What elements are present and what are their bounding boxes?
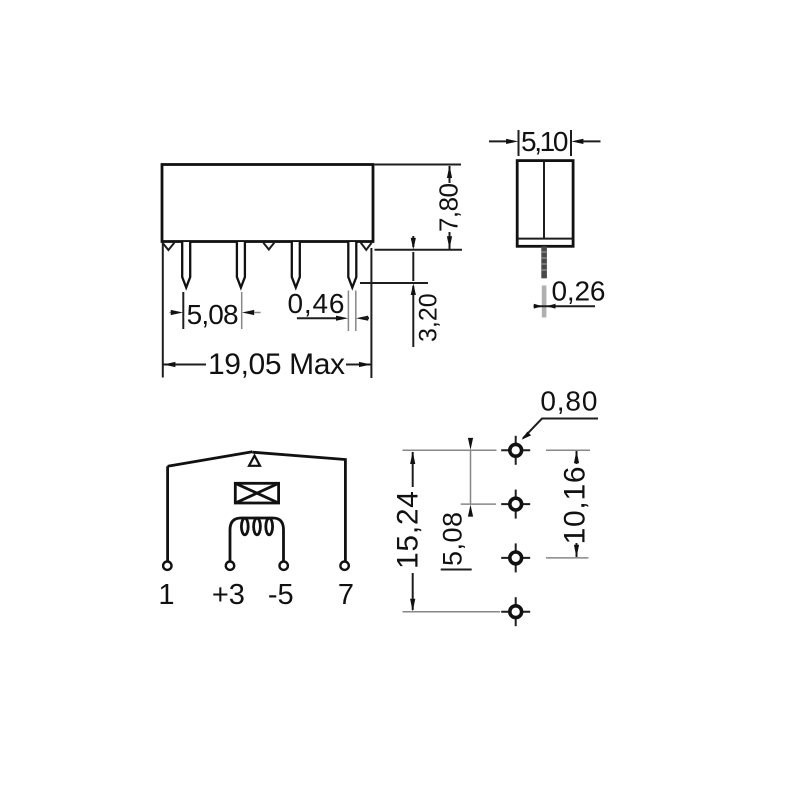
coil box with X [235, 483, 278, 503]
body notch right [361, 243, 372, 250]
dimension 7,80 line [449, 166, 451, 183]
extension row3 right [546, 557, 589, 559]
end view base line [518, 238, 573, 240]
dimension 10,16 line [576, 451, 578, 464]
svg-text:0,80: 0,80 [540, 386, 597, 417]
arrow left 19,05 [163, 362, 175, 367]
pin 1 terminal [163, 562, 171, 570]
arrow up 7,80 [447, 165, 452, 178]
svg-text:-5: -5 [268, 579, 294, 611]
contact triangle [249, 456, 260, 466]
svg-text:+3: +3 [212, 579, 245, 611]
dimension 5,10 extension right [570, 130, 572, 156]
arrow right 5,10 [489, 140, 507, 142]
dimension 5,08 extension left [182, 292, 184, 329]
pin 7 terminal [340, 562, 348, 570]
arrow right 0,46 [297, 317, 337, 319]
arrow left 5,10 [571, 139, 583, 144]
svg-text:7,80: 7,80 [434, 183, 464, 232]
end view seam line [543, 161, 545, 239]
body notch left [162, 243, 174, 250]
svg-text:5,08: 5,08 [438, 512, 468, 566]
coil loop 2 [254, 518, 261, 535]
underline 5,08 pads [441, 569, 472, 571]
dimension 19,05 extension left [162, 244, 164, 378]
svg-text:0,26: 0,26 [552, 276, 606, 307]
arrow up 3,20 [411, 283, 416, 295]
arrow down 7,80 [447, 236, 452, 249]
svg-text:15,24: 15,24 [392, 491, 425, 569]
extension row4 left [403, 611, 501, 613]
pad 3 [501, 543, 530, 572]
relay body outline [162, 165, 373, 242]
svg-text:7: 7 [338, 579, 354, 611]
dimension 19,05 line [163, 364, 206, 366]
arrow up 10,16 [574, 451, 579, 464]
extension row1 right [546, 449, 590, 451]
pin 5 terminal [280, 562, 288, 570]
end view body [517, 161, 573, 247]
arrow right 0,26 [534, 304, 543, 309]
wire pin 7 lead [253, 452, 346, 561]
pin 2 (side view) [237, 242, 245, 288]
svg-text:5,10: 5,10 [521, 126, 569, 157]
dimension 19,05 extension right [370, 248, 372, 378]
dimension 5,10 extension left [518, 130, 520, 156]
dimension 3,20 line [412, 236, 414, 247]
leader arrowhead 0,80 [522, 432, 532, 440]
arrow left 0,26 [546, 304, 555, 309]
extension line body top right [375, 164, 462, 166]
arrow up 5,08 pads [468, 505, 473, 517]
arrow right 5,08 [170, 312, 174, 314]
leader 0,80 [523, 419, 598, 439]
dimension 5,08 connector [470, 438, 472, 442]
coil loop 3 [266, 518, 273, 535]
arrow up 15,24 [410, 451, 415, 464]
svg-text:0,46: 0,46 [288, 288, 345, 319]
svg-text:1: 1 [158, 579, 174, 611]
arrow left 5,08 [242, 310, 254, 315]
coil winding [230, 518, 284, 562]
arrow down 5,08 pads [468, 438, 473, 450]
end view pin lower (light) [542, 286, 547, 318]
pad 1 [501, 436, 530, 465]
pin 4 (side view) [348, 242, 356, 288]
arrow right 19,05 [359, 362, 371, 367]
extension row2 middle [461, 503, 496, 505]
svg-text:19,05 Max: 19,05 Max [208, 348, 345, 381]
extension row1 left [403, 449, 497, 451]
svg-text:10,16: 10,16 [559, 466, 592, 544]
arrow left 0,46 [356, 316, 368, 321]
switch blade [168, 452, 253, 466]
extension line pin tip right [360, 282, 428, 284]
arrow down 3,20 [411, 238, 416, 250]
svg-text:3,20: 3,20 [415, 293, 443, 342]
dimension 0,46 extension left [347, 291, 349, 332]
pad 4 [501, 597, 530, 626]
dimension 0,26 line [534, 305, 596, 307]
svg-text:5,08: 5,08 [187, 299, 239, 330]
dimension 15,24 line [412, 452, 414, 487]
arrow down 10,16 [574, 545, 579, 558]
extension line body bottom right [375, 249, 463, 251]
pin 3 (side view) [292, 242, 300, 288]
dimension 0,46 extension right [355, 291, 357, 332]
dimension 5,08 extension right [241, 292, 243, 329]
coil loop 1 [241, 518, 248, 535]
arrow down 15,24 [410, 599, 415, 612]
body notch middle [263, 243, 274, 250]
pin 1 (side view) [182, 242, 190, 288]
pad 2 [501, 490, 530, 519]
end view pin upper (dark) [541, 246, 547, 278]
wire pin 1 to blade [166, 466, 169, 561]
pin 3 terminal [226, 562, 234, 570]
